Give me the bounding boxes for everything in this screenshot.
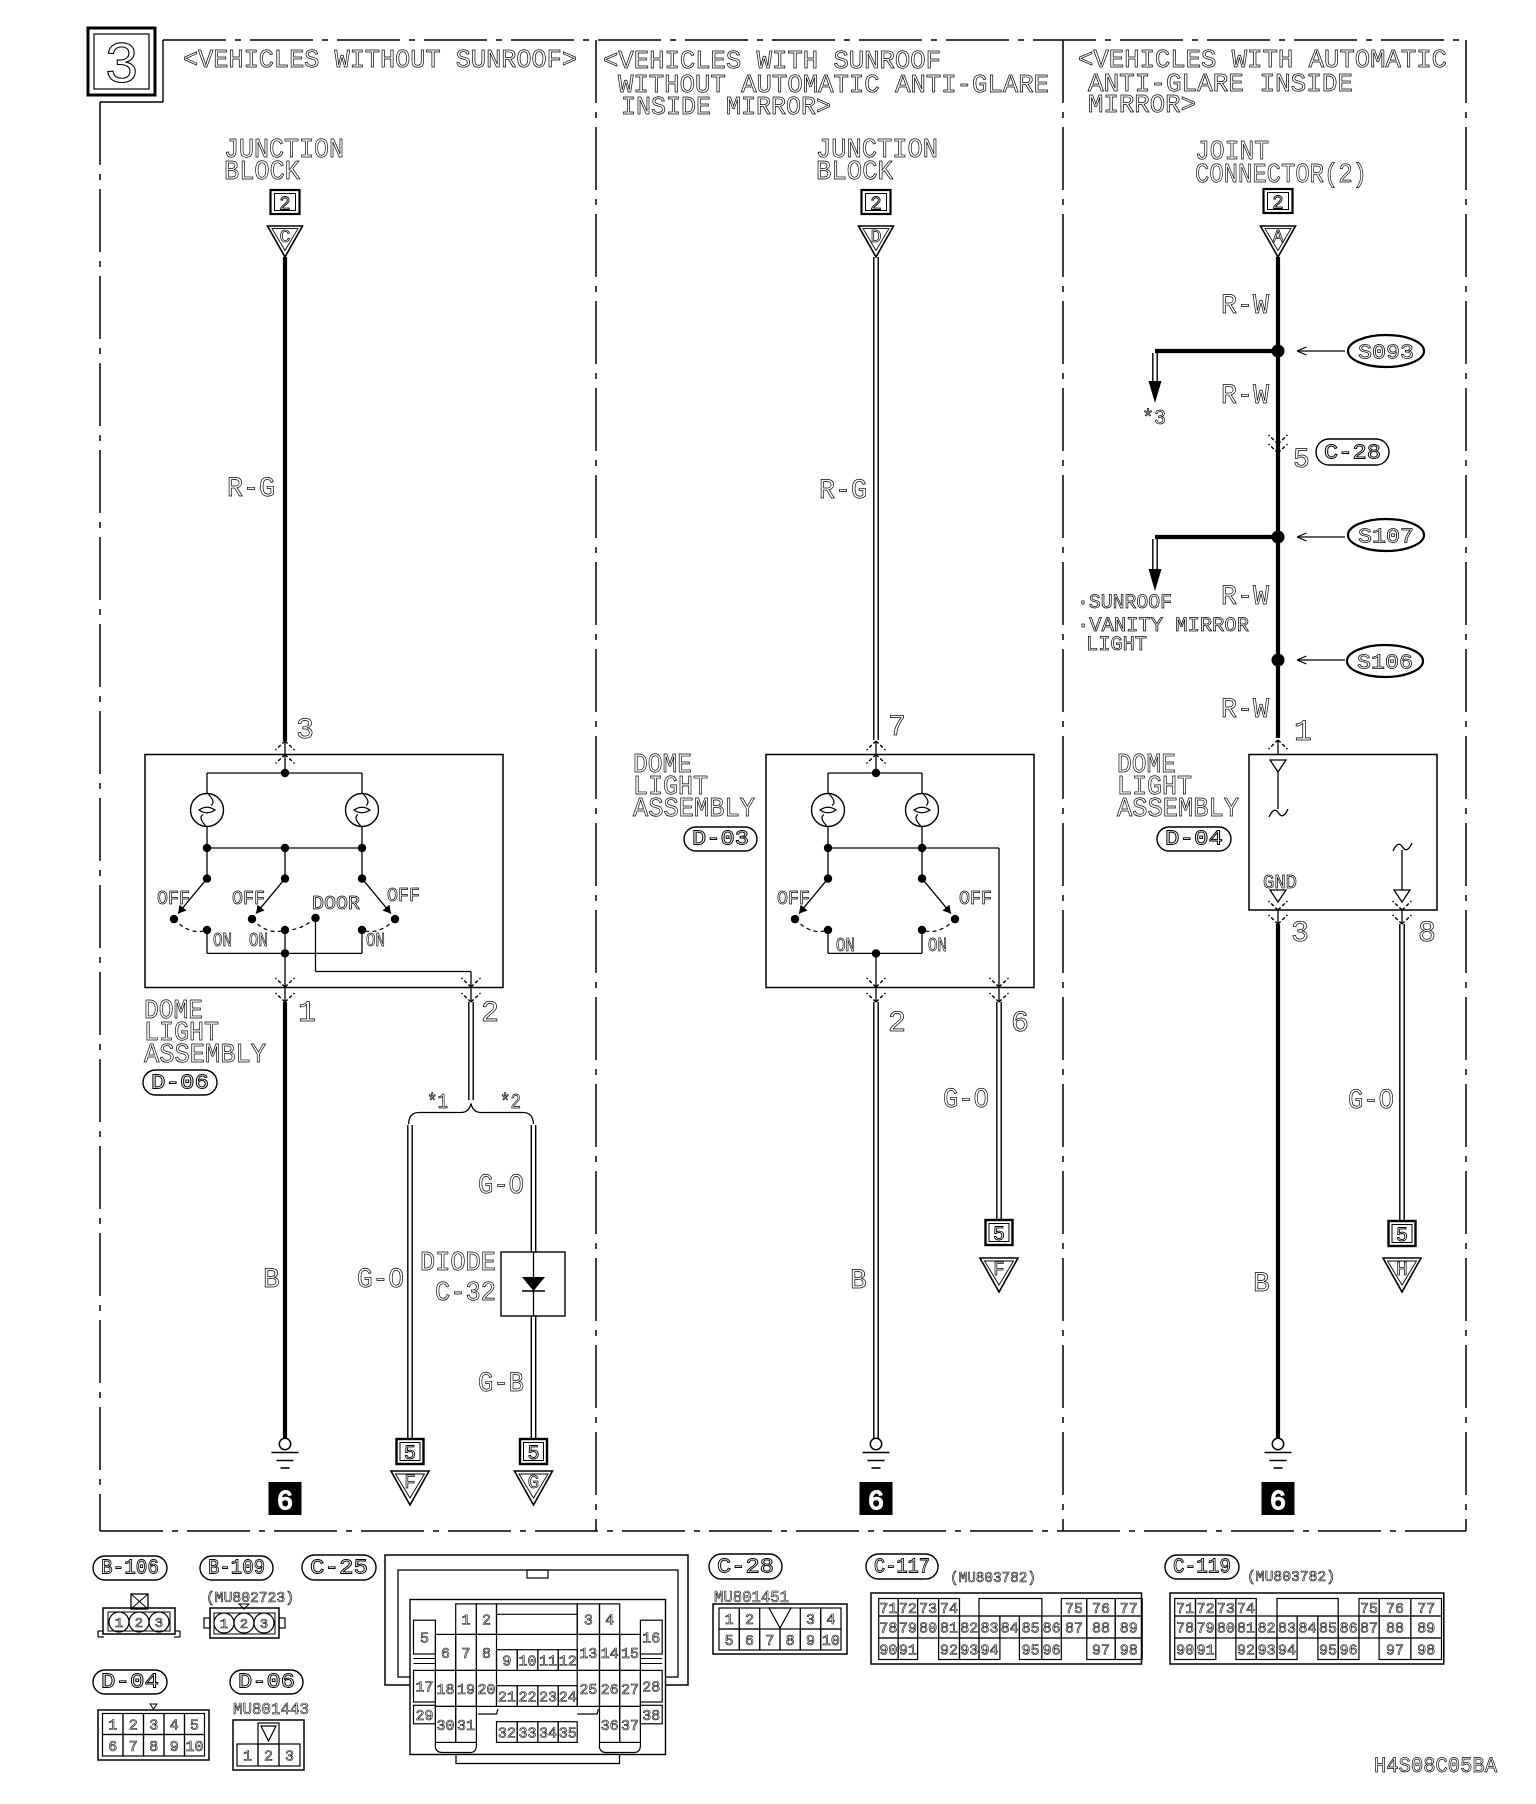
svg-text:H4S08C05BA: H4S08C05BA — [1374, 1754, 1498, 1779]
svg-text:3: 3 — [155, 1616, 163, 1632]
svg-text:11: 11 — [539, 1654, 557, 1671]
svg-text:96: 96 — [1043, 1642, 1061, 1659]
svg-text:3: 3 — [104, 35, 139, 100]
svg-text:93: 93 — [1258, 1642, 1276, 1659]
svg-text:76: 76 — [1092, 1601, 1110, 1618]
svg-text:74: 74 — [1237, 1601, 1255, 1618]
svg-text:OFF: OFF — [157, 888, 190, 910]
svg-text:*3: *3 — [1142, 408, 1166, 431]
svg-text:BLOCK: BLOCK — [816, 158, 894, 188]
svg-text:3: 3 — [296, 714, 314, 748]
svg-text:GND: GND — [1263, 872, 1297, 894]
svg-text:18: 18 — [437, 1682, 455, 1699]
svg-text:9: 9 — [502, 1654, 511, 1671]
svg-text:37: 37 — [621, 1718, 639, 1735]
svg-text:79: 79 — [899, 1621, 917, 1638]
svg-text:81: 81 — [940, 1621, 958, 1638]
svg-text:7: 7 — [888, 711, 906, 745]
svg-text:98: 98 — [1120, 1642, 1138, 1659]
svg-text:H: H — [1396, 1259, 1407, 1281]
svg-text:25: 25 — [579, 1682, 597, 1699]
svg-text:R-G: R-G — [819, 476, 867, 507]
svg-text:·SUNROOF: ·SUNROOF — [1077, 592, 1172, 615]
svg-text:(MU803782): (MU803782) — [950, 1570, 1036, 1587]
svg-text:21: 21 — [498, 1690, 516, 1707]
svg-text:83: 83 — [1278, 1621, 1296, 1638]
svg-text:31: 31 — [457, 1718, 475, 1735]
svg-text:5: 5 — [404, 1443, 416, 1466]
svg-text:87: 87 — [1360, 1621, 1378, 1638]
svg-text:97: 97 — [1092, 1642, 1110, 1659]
svg-text:10: 10 — [822, 1633, 840, 1650]
svg-text:R-W: R-W — [1221, 291, 1269, 322]
svg-text:ON: ON — [836, 935, 855, 957]
svg-text:C-25: C-25 — [310, 1558, 368, 1581]
svg-text:82: 82 — [960, 1621, 978, 1638]
svg-text:6: 6 — [277, 1488, 293, 1518]
svg-text:D-04: D-04 — [101, 1672, 159, 1695]
svg-text:6: 6 — [1270, 1488, 1286, 1518]
svg-text:6: 6 — [745, 1633, 754, 1650]
svg-text:4: 4 — [826, 1612, 835, 1629]
svg-text:91: 91 — [899, 1642, 917, 1659]
svg-text:3: 3 — [806, 1612, 815, 1629]
svg-text:ON: ON — [249, 930, 268, 952]
svg-text:3: 3 — [1291, 917, 1309, 951]
svg-text:75: 75 — [1065, 1601, 1083, 1618]
svg-text:ON: ON — [366, 930, 385, 952]
svg-text:10: 10 — [185, 1739, 203, 1756]
svg-text:92: 92 — [1237, 1642, 1255, 1659]
svg-text:G-O: G-O — [943, 1085, 989, 1116]
svg-text:C-28: C-28 — [1324, 443, 1381, 466]
svg-text:7: 7 — [462, 1646, 471, 1663]
svg-text:<VEHICLES WITHOUT SUNROOF>: <VEHICLES WITHOUT SUNROOF> — [183, 45, 577, 75]
svg-text:3: 3 — [149, 1718, 158, 1735]
svg-text:9: 9 — [170, 1739, 179, 1756]
svg-text:1: 1 — [1294, 716, 1312, 750]
svg-text:36: 36 — [601, 1718, 619, 1735]
svg-text:C-28: C-28 — [717, 1557, 774, 1580]
svg-text:D-04: D-04 — [1165, 829, 1223, 852]
svg-text:C: C — [280, 228, 291, 248]
svg-text:77: 77 — [1120, 1601, 1138, 1618]
svg-text:74: 74 — [940, 1601, 958, 1618]
svg-text:95: 95 — [1022, 1642, 1040, 1659]
svg-text:2: 2 — [745, 1612, 754, 1629]
svg-text:6: 6 — [108, 1739, 117, 1756]
svg-text:D-06: D-06 — [151, 1073, 209, 1096]
svg-text:5: 5 — [190, 1718, 199, 1735]
svg-text:90: 90 — [879, 1642, 897, 1659]
svg-text:B-109: B-109 — [208, 1558, 265, 1581]
svg-text:88: 88 — [1386, 1621, 1404, 1638]
svg-text:75: 75 — [1360, 1601, 1378, 1618]
svg-text:5: 5 — [527, 1443, 539, 1466]
svg-text:1: 1 — [725, 1612, 734, 1629]
svg-text:17: 17 — [415, 1680, 433, 1697]
svg-text:91: 91 — [1197, 1642, 1215, 1659]
svg-text:5: 5 — [725, 1633, 734, 1650]
svg-text:10: 10 — [519, 1654, 537, 1671]
svg-text:9: 9 — [806, 1633, 815, 1650]
svg-text:23: 23 — [539, 1690, 557, 1707]
svg-text:*2: *2 — [500, 1092, 521, 1115]
svg-text:1: 1 — [115, 1616, 123, 1632]
svg-text:1: 1 — [243, 1749, 252, 1766]
svg-text:80: 80 — [1217, 1621, 1235, 1638]
svg-text:D-03: D-03 — [692, 829, 749, 852]
svg-text:86: 86 — [1043, 1621, 1061, 1638]
svg-text:6: 6 — [441, 1646, 450, 1663]
svg-text:2: 2 — [240, 1617, 248, 1633]
svg-text:88: 88 — [1092, 1621, 1110, 1638]
svg-text:24: 24 — [559, 1690, 577, 1707]
svg-text:16: 16 — [642, 1631, 660, 1648]
svg-text:4: 4 — [170, 1718, 179, 1735]
svg-text:2: 2 — [129, 1718, 138, 1735]
svg-text:2: 2 — [1272, 193, 1283, 215]
svg-text:34: 34 — [539, 1726, 557, 1743]
svg-text:94: 94 — [980, 1642, 998, 1659]
svg-text:DOOR: DOOR — [312, 893, 360, 915]
svg-text:5: 5 — [1293, 445, 1310, 476]
svg-text:80: 80 — [919, 1621, 937, 1638]
svg-text:1: 1 — [462, 1613, 471, 1630]
svg-text:1: 1 — [108, 1718, 117, 1735]
svg-text:79: 79 — [1197, 1621, 1215, 1638]
svg-text:89: 89 — [1120, 1621, 1138, 1638]
svg-text:F: F — [404, 1472, 415, 1494]
svg-text:29: 29 — [415, 1708, 433, 1725]
svg-text:5: 5 — [420, 1631, 429, 1648]
svg-text:15: 15 — [621, 1646, 639, 1663]
svg-text:OFF: OFF — [232, 888, 265, 910]
svg-text:A: A — [1273, 228, 1284, 248]
svg-text:8: 8 — [786, 1633, 795, 1650]
svg-text:89: 89 — [1417, 1621, 1435, 1638]
svg-text:97: 97 — [1386, 1642, 1404, 1659]
svg-text:71: 71 — [879, 1601, 897, 1618]
svg-text:32: 32 — [498, 1726, 516, 1743]
svg-text:DIODE: DIODE — [420, 1249, 496, 1279]
svg-text:B: B — [1253, 1269, 1270, 1300]
svg-text:6: 6 — [868, 1488, 884, 1518]
svg-text:90: 90 — [1176, 1642, 1194, 1659]
svg-text:F: F — [993, 1259, 1004, 1281]
svg-text:78: 78 — [1176, 1621, 1194, 1638]
svg-text:98: 98 — [1417, 1642, 1435, 1659]
svg-text:8: 8 — [1418, 917, 1436, 951]
svg-text:2: 2 — [135, 1616, 143, 1632]
svg-text:2: 2 — [481, 997, 499, 1031]
svg-text:28: 28 — [642, 1680, 660, 1697]
svg-text:27: 27 — [621, 1682, 639, 1699]
svg-text:2: 2 — [482, 1613, 491, 1630]
svg-text:5: 5 — [993, 1224, 1005, 1247]
svg-text:2: 2 — [279, 194, 290, 216]
svg-text:D-06: D-06 — [238, 1672, 295, 1695]
svg-text:92: 92 — [940, 1642, 958, 1659]
svg-text:MU801451: MU801451 — [714, 1589, 789, 1608]
svg-text:5: 5 — [1396, 1225, 1408, 1248]
svg-text:S106: S106 — [1357, 653, 1413, 676]
svg-text:LIGHT: LIGHT — [1086, 634, 1147, 657]
svg-text:B: B — [263, 1265, 280, 1296]
svg-text:MIRROR>: MIRROR> — [1088, 90, 1196, 120]
svg-text:G-O: G-O — [357, 1265, 404, 1296]
svg-text:30: 30 — [437, 1718, 455, 1735]
svg-text:19: 19 — [457, 1682, 475, 1699]
svg-text:86: 86 — [1340, 1621, 1358, 1638]
svg-text:84: 84 — [1298, 1621, 1316, 1638]
svg-text:96: 96 — [1340, 1642, 1358, 1659]
svg-text:INSIDE MIRROR>: INSIDE MIRROR> — [621, 92, 831, 122]
svg-text:3: 3 — [584, 1613, 593, 1630]
svg-text:B-106: B-106 — [101, 1558, 159, 1581]
svg-text:G-O: G-O — [1348, 1086, 1394, 1117]
svg-text:1: 1 — [220, 1617, 228, 1633]
svg-text:(MU803782): (MU803782) — [1247, 1569, 1335, 1586]
svg-text:12: 12 — [559, 1654, 577, 1671]
svg-text:3: 3 — [285, 1749, 294, 1766]
svg-text:76: 76 — [1386, 1601, 1404, 1618]
svg-text:38: 38 — [642, 1708, 660, 1725]
svg-text:20: 20 — [477, 1682, 495, 1699]
svg-text:73: 73 — [1217, 1601, 1235, 1618]
svg-text:95: 95 — [1319, 1642, 1337, 1659]
svg-text:CONNECTOR(2): CONNECTOR(2) — [1195, 161, 1367, 191]
svg-text:2: 2 — [888, 1007, 906, 1041]
svg-text:*1: *1 — [427, 1092, 448, 1115]
svg-text:S107: S107 — [1358, 527, 1414, 550]
svg-text:R-G: R-G — [227, 474, 275, 505]
svg-text:OFF: OFF — [777, 888, 810, 910]
svg-text:84: 84 — [1001, 1621, 1019, 1638]
svg-text:14: 14 — [601, 1646, 619, 1663]
svg-text:G-B: G-B — [478, 1369, 524, 1400]
svg-text:ASSEMBLY: ASSEMBLY — [144, 1041, 266, 1071]
svg-text:72: 72 — [899, 1601, 917, 1618]
svg-text:87: 87 — [1065, 1621, 1083, 1638]
svg-text:BLOCK: BLOCK — [224, 158, 301, 188]
svg-text:ON: ON — [928, 935, 947, 957]
svg-text:93: 93 — [960, 1642, 978, 1659]
svg-text:83: 83 — [980, 1621, 998, 1638]
svg-text:8: 8 — [482, 1646, 491, 1663]
svg-text:C-32: C-32 — [435, 1279, 496, 1309]
svg-text:R-W: R-W — [1221, 381, 1269, 412]
svg-text:94: 94 — [1278, 1642, 1296, 1659]
svg-text:ASSEMBLY: ASSEMBLY — [633, 795, 755, 825]
svg-text:13: 13 — [579, 1646, 597, 1663]
svg-text:G: G — [528, 1472, 539, 1494]
svg-text:71: 71 — [1176, 1601, 1194, 1618]
svg-text:85: 85 — [1319, 1621, 1337, 1638]
svg-text:G-O: G-O — [478, 1171, 524, 1202]
svg-text:C-117: C-117 — [874, 1557, 930, 1580]
svg-text:8: 8 — [149, 1739, 158, 1756]
svg-text:R-W: R-W — [1221, 695, 1269, 726]
svg-text:OFF: OFF — [387, 885, 420, 907]
svg-text:ASSEMBLY: ASSEMBLY — [1117, 795, 1239, 825]
svg-text:S093: S093 — [1358, 343, 1414, 366]
svg-text:73: 73 — [919, 1601, 937, 1618]
svg-text:81: 81 — [1237, 1621, 1255, 1638]
svg-text:82: 82 — [1258, 1621, 1276, 1638]
svg-text:4: 4 — [605, 1613, 614, 1630]
svg-text:7: 7 — [765, 1633, 774, 1650]
svg-text:72: 72 — [1197, 1601, 1215, 1618]
svg-text:77: 77 — [1417, 1601, 1435, 1618]
svg-text:3: 3 — [260, 1617, 268, 1633]
svg-text:MU801443: MU801443 — [233, 1701, 309, 1720]
svg-text:26: 26 — [601, 1682, 619, 1699]
svg-text:1: 1 — [298, 997, 316, 1031]
svg-text:6: 6 — [1011, 1007, 1029, 1041]
svg-text:2: 2 — [870, 194, 881, 216]
svg-text:R-W: R-W — [1221, 582, 1269, 613]
svg-text:22: 22 — [519, 1690, 537, 1707]
svg-text:85: 85 — [1022, 1621, 1040, 1638]
svg-text:ON: ON — [213, 930, 232, 952]
svg-text:2: 2 — [264, 1749, 273, 1766]
svg-text:78: 78 — [879, 1621, 897, 1638]
svg-text:7: 7 — [129, 1739, 138, 1756]
svg-text:33: 33 — [519, 1726, 537, 1743]
svg-text:D: D — [871, 228, 882, 248]
svg-text:35: 35 — [559, 1726, 577, 1743]
svg-text:B: B — [850, 1266, 867, 1297]
svg-text:OFF: OFF — [959, 888, 992, 910]
svg-text:C-119: C-119 — [1173, 1557, 1231, 1580]
svg-text:(MU802723): (MU802723) — [206, 1590, 294, 1607]
